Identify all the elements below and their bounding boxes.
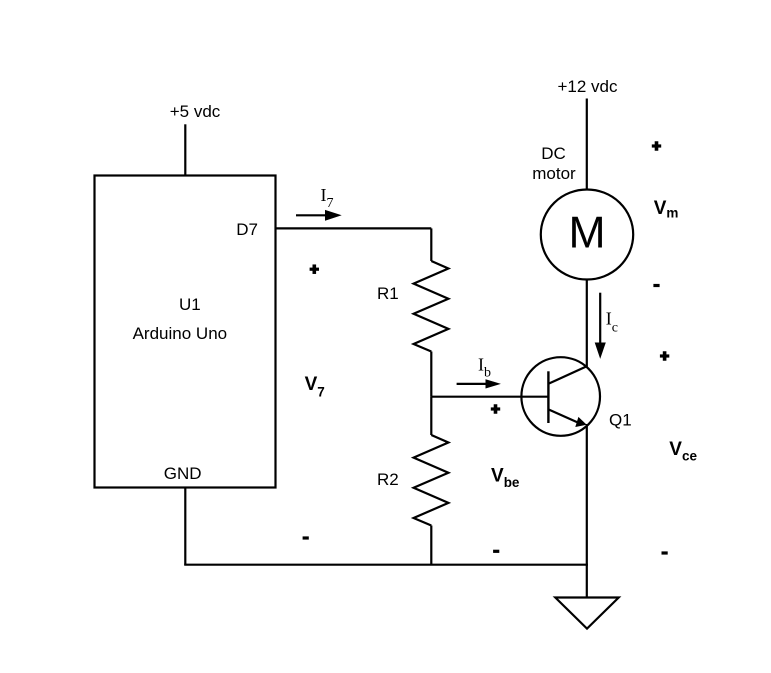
transistor Q1 emitter diagonal <box>548 409 579 423</box>
wire emitter down to ground <box>586 424 588 598</box>
svg-text:R2: R2 <box>377 470 399 489</box>
svg-text:GND: GND <box>164 464 202 483</box>
svg-text:+12 vdc: +12 vdc <box>557 77 618 96</box>
current arrow Ic <box>599 293 601 344</box>
wire R1 top lead <box>430 228 432 261</box>
IC U1 Arduino Uno box <box>95 176 276 488</box>
wire +12 vdc supply to motor <box>586 99 588 190</box>
polarity + of Vce <box>660 354 669 357</box>
polarity - of Vce <box>662 551 668 554</box>
motor M1 circle <box>541 190 633 280</box>
wire collector up to motor <box>586 280 588 367</box>
wire U1 GND down <box>184 488 186 565</box>
current arrow I7 <box>296 214 327 216</box>
wire R1 bottom to node A <box>430 352 432 397</box>
transistor Q1 emitter arrowhead <box>575 417 586 427</box>
resistor R2 <box>414 435 449 526</box>
resistor R1 <box>414 261 449 352</box>
transistor Q1 collector diagonal <box>548 366 586 384</box>
polarity - of Vbe <box>493 550 499 553</box>
transistor Q1 circle <box>521 357 600 436</box>
polarity + of Vm <box>652 144 661 147</box>
svg-text:R1: R1 <box>377 284 399 303</box>
svg-text:DC: DC <box>541 144 566 163</box>
ground symbol <box>555 598 618 629</box>
transistor Q1 base bar <box>547 371 549 423</box>
wire +5 vdc supply to U1 top <box>184 124 186 175</box>
svg-text:M: M <box>568 209 605 258</box>
svg-text:U1: U1 <box>179 295 201 314</box>
polarity + of Vbe <box>491 407 500 410</box>
wire R2 bottom to ground rail <box>430 526 432 565</box>
svg-text:+5 vdc: +5 vdc <box>170 102 221 121</box>
wire node A to R2 top <box>430 397 432 435</box>
svg-text:D7: D7 <box>236 220 258 239</box>
svg-text:motor: motor <box>532 164 576 183</box>
wire node A to Q1 base <box>431 396 548 398</box>
polarity - of Vm <box>653 284 659 287</box>
wire D7 to R1 top <box>276 227 431 229</box>
polarity + of V7 <box>310 268 319 271</box>
current arrow Ib <box>457 383 487 385</box>
wire ground rail <box>184 564 588 566</box>
svg-text:Arduino Uno: Arduino Uno <box>133 324 228 343</box>
polarity - of V7 <box>303 536 309 539</box>
svg-text:Q1: Q1 <box>609 411 632 430</box>
